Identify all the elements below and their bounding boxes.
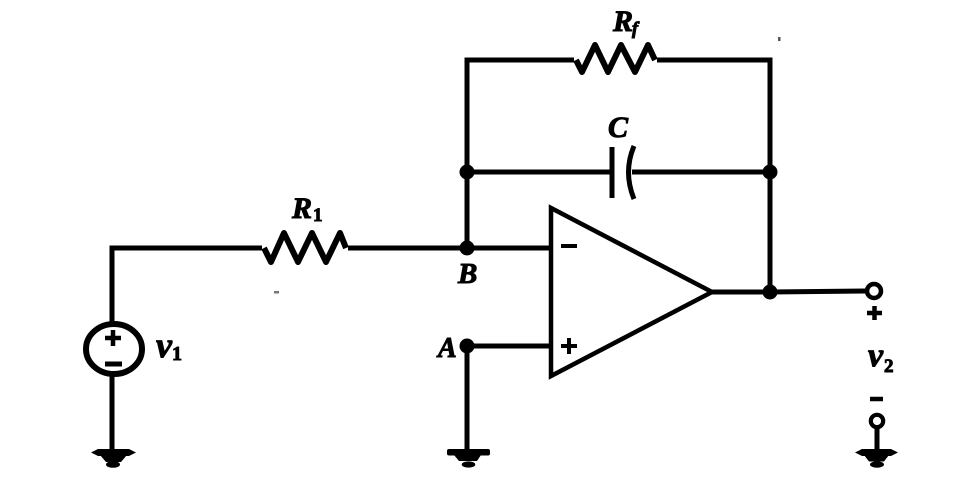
- svg-text:f: f: [632, 18, 640, 38]
- node B: [460, 241, 475, 256]
- wire: capacitor node to capacitor left plate: [467, 170, 611, 175]
- svg-text:R: R: [612, 5, 633, 38]
- wire: node B to op-amp inverting input: [467, 246, 551, 251]
- wire: node B up to capacitor node: [465, 172, 470, 248]
- op-amp minus sign: [561, 244, 577, 248]
- ground (node A): [447, 449, 490, 468]
- minus sign (output): [870, 397, 883, 402]
- v1 plus sign: [105, 330, 121, 346]
- wire: R1 right to node B: [348, 246, 467, 251]
- svg-text:2: 2: [884, 356, 894, 377]
- svg-text:1: 1: [313, 205, 323, 226]
- wire: right rail down to output node: [768, 172, 773, 292]
- ground (v1): [91, 449, 136, 468]
- wire: v1 bottom to ground: [110, 376, 115, 451]
- lower output terminal (open circle): [871, 415, 883, 427]
- svg-text:C: C: [608, 111, 629, 144]
- wire: capacitor right plate to right rail: [632, 170, 770, 175]
- wire: node A down to ground: [465, 346, 470, 451]
- ground (output): [855, 449, 898, 468]
- svg-text:v: v: [156, 325, 173, 365]
- wire: Rf right to top-right corner, down to cap right node: [657, 60, 770, 172]
- voltage source v1: [86, 324, 142, 374]
- svg-text:B: B: [457, 258, 477, 290]
- op-amp plus sign: [561, 338, 577, 354]
- capacitor C left plate: [610, 147, 615, 198]
- wire: output node to terminal: [770, 291, 865, 292]
- node A: [460, 339, 475, 354]
- resistor R1: [264, 233, 346, 262]
- node: capacitor left junction: [460, 165, 475, 180]
- wire: node A to op-amp non-inverting input: [467, 344, 551, 349]
- capacitor C right plate (curved): [629, 146, 635, 199]
- svg-text:v: v: [868, 337, 884, 374]
- wire: v1 top to R1 left (up then right): [112, 248, 262, 322]
- scan speck (top right): [778, 37, 781, 41]
- output terminal (open circle, +): [867, 284, 881, 298]
- plus sign (output): [867, 306, 882, 320]
- op-amp U1: [551, 208, 712, 376]
- node: right rail capacitor junction: [763, 165, 778, 180]
- wire: capacitor node up to top feedback rail: [467, 60, 574, 172]
- scan speck (below R1): [274, 291, 279, 294]
- wire: lower terminal to ground: [875, 428, 880, 452]
- node: output junction: [763, 285, 778, 300]
- svg-text:A: A: [436, 333, 457, 364]
- svg-text:R: R: [291, 192, 312, 225]
- resistor Rf: [576, 45, 655, 72]
- svg-text:1: 1: [172, 343, 182, 365]
- wire: op-amp output to node: [712, 290, 770, 295]
- v1 minus sign: [105, 362, 122, 367]
